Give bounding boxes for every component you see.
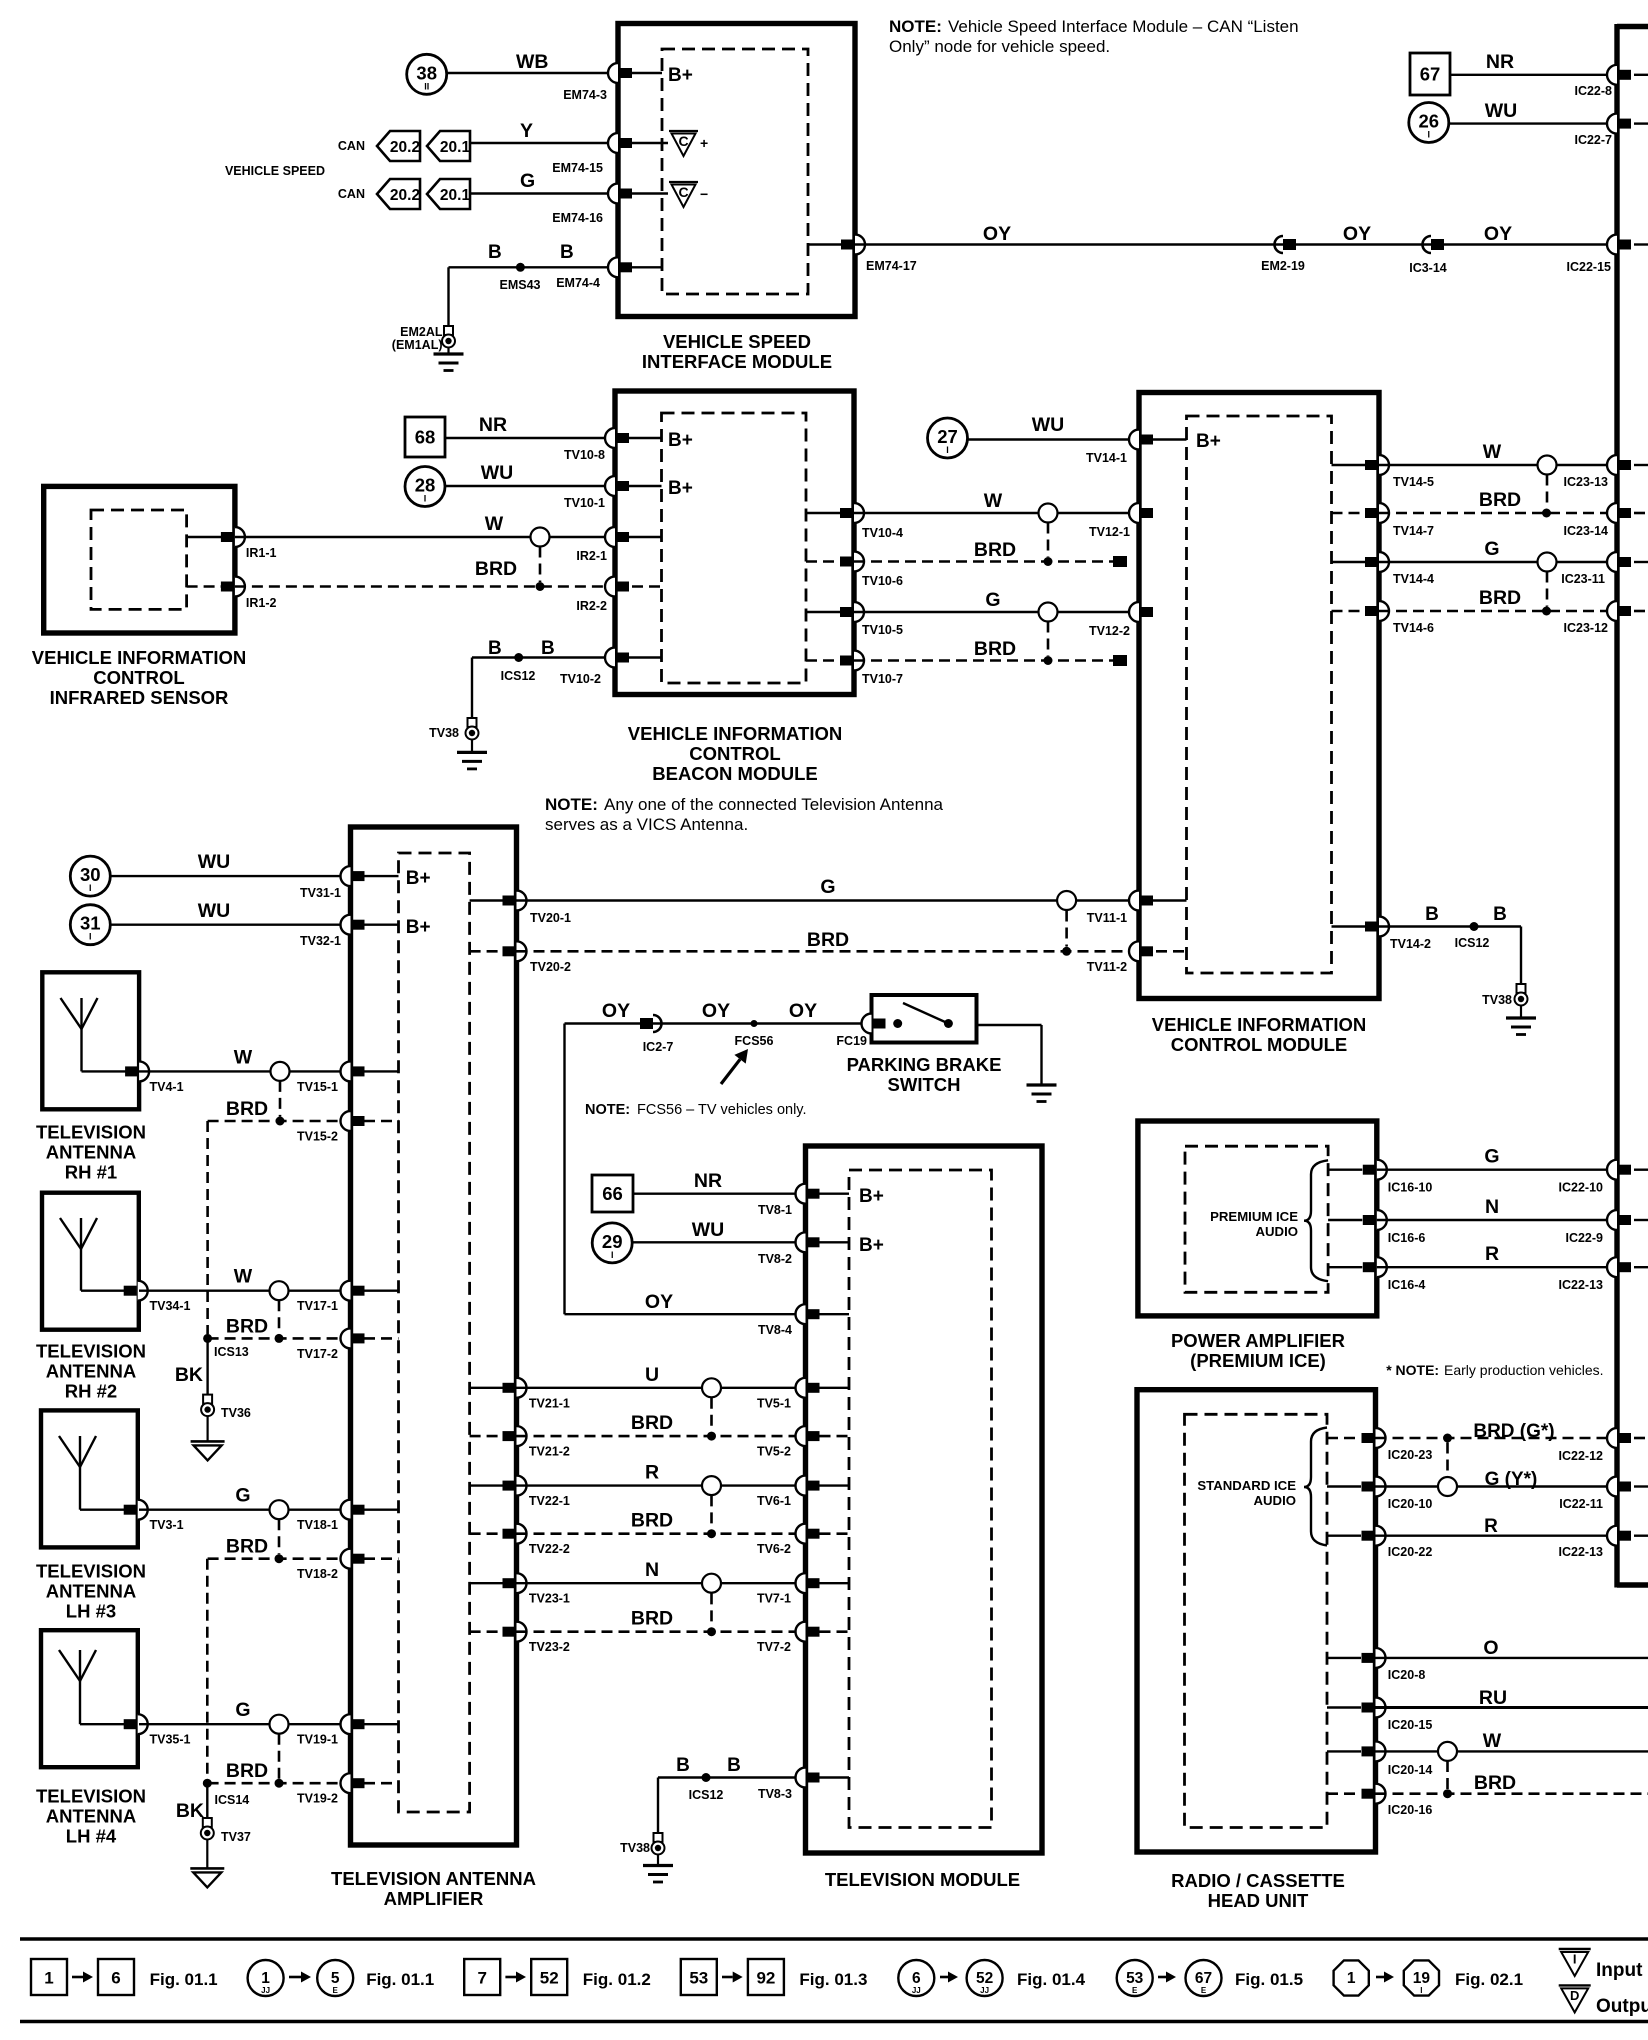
svg-text:IC20-22: IC20-22: [1388, 1545, 1433, 1559]
svg-text:Fig. 01.3: Fig. 01.3: [799, 1970, 867, 1989]
svg-text:TV21-1: TV21-1: [529, 1396, 570, 1410]
svg-text:O: O: [1483, 1637, 1498, 1659]
svg-text:I: I: [424, 494, 427, 504]
svg-text:TV14-4: TV14-4: [1393, 572, 1434, 586]
svg-text:TV10-4: TV10-4: [862, 526, 903, 540]
svg-text:VEHICLE INFORMATION: VEHICLE INFORMATION: [1152, 1014, 1366, 1035]
svg-text:EM74-4: EM74-4: [556, 276, 600, 290]
svg-text:IC16-10: IC16-10: [1388, 1181, 1433, 1195]
svg-text:TV34-1: TV34-1: [150, 1299, 191, 1313]
svg-text:EM74-17: EM74-17: [866, 259, 917, 273]
svg-text:WU: WU: [1032, 414, 1065, 436]
svg-text:IC16-6: IC16-6: [1388, 1231, 1426, 1245]
svg-text:II: II: [424, 81, 429, 91]
svg-text:BRD: BRD: [1479, 489, 1521, 511]
svg-text:Fig. 01.1: Fig. 01.1: [150, 1970, 218, 1989]
svg-text:W: W: [234, 1046, 253, 1068]
svg-text:IC22-10: IC22-10: [1559, 1181, 1604, 1195]
svg-text:1: 1: [1347, 1970, 1356, 1987]
svg-text:B+: B+: [668, 65, 693, 86]
svg-text:30: 30: [80, 864, 101, 885]
svg-text:I: I: [1420, 1986, 1422, 1995]
svg-text:CAN: CAN: [338, 187, 365, 201]
svg-text:* NOTE:: * NOTE:: [1386, 1362, 1439, 1378]
svg-text:TV22-1: TV22-1: [529, 1494, 570, 1508]
svg-text:OY: OY: [1484, 223, 1512, 245]
svg-text:TV32-1: TV32-1: [300, 934, 341, 948]
svg-text:ANTENNA: ANTENNA: [46, 1361, 136, 1382]
svg-text:EM2-19: EM2-19: [1261, 259, 1305, 273]
svg-text:92: 92: [756, 1969, 775, 1988]
svg-text:TELEVISION: TELEVISION: [36, 1786, 146, 1807]
svg-text:NR: NR: [694, 1170, 722, 1192]
svg-text:ICS12: ICS12: [501, 669, 536, 683]
svg-text:D: D: [1570, 1988, 1579, 2003]
svg-text:6: 6: [912, 1970, 921, 1987]
svg-text:1: 1: [44, 1969, 53, 1988]
svg-text:BRD: BRD: [226, 1315, 268, 1337]
svg-text:TV14-2: TV14-2: [1390, 937, 1431, 951]
svg-text:I: I: [611, 1250, 614, 1260]
svg-text:TV10-1: TV10-1: [564, 496, 605, 510]
svg-text:TV21-2: TV21-2: [529, 1445, 570, 1459]
svg-text:G (Y*): G (Y*): [1485, 1469, 1538, 1490]
svg-text:+: +: [700, 135, 708, 151]
svg-text:TV18-1: TV18-1: [297, 1518, 338, 1532]
svg-text:INFRARED SENSOR: INFRARED SENSOR: [50, 687, 229, 708]
svg-text:27: 27: [937, 426, 958, 447]
svg-text:68: 68: [415, 427, 436, 448]
svg-text:TV14-6: TV14-6: [1393, 621, 1434, 635]
svg-text:IC20-23: IC20-23: [1388, 1448, 1433, 1462]
svg-text:TV35-1: TV35-1: [150, 1733, 191, 1747]
svg-text:TV10-7: TV10-7: [862, 672, 903, 686]
svg-text:B+: B+: [859, 1235, 884, 1256]
svg-text:B: B: [560, 242, 574, 263]
svg-text:IC22-8: IC22-8: [1574, 84, 1612, 98]
svg-text:HEAD UNIT: HEAD UNIT: [1208, 1890, 1309, 1911]
svg-text:IC20-16: IC20-16: [1388, 1803, 1433, 1817]
svg-text:I: I: [1428, 130, 1431, 140]
svg-text:TV37: TV37: [221, 1830, 251, 1844]
svg-text:TELEVISION MODULE: TELEVISION MODULE: [825, 1869, 1020, 1890]
svg-text:5: 5: [331, 1970, 340, 1987]
svg-text:29: 29: [602, 1231, 623, 1252]
svg-text:PARKING BRAKE: PARKING BRAKE: [847, 1054, 1002, 1075]
svg-text:TV22-2: TV22-2: [529, 1542, 570, 1556]
svg-text:EMS43: EMS43: [500, 278, 541, 292]
svg-text:TV10-2: TV10-2: [560, 672, 601, 686]
svg-text:TV19-1: TV19-1: [297, 1733, 338, 1747]
svg-text:TV38: TV38: [429, 726, 459, 740]
svg-text:(PREMIUM ICE): (PREMIUM ICE): [1190, 1350, 1326, 1371]
svg-text:BRD: BRD: [631, 1510, 673, 1532]
svg-text:52: 52: [976, 1970, 993, 1987]
svg-text:WU: WU: [481, 462, 514, 484]
svg-text:NOTE:: NOTE:: [545, 795, 598, 814]
svg-text:IR2-1: IR2-1: [576, 549, 607, 563]
svg-text:JJ: JJ: [912, 1986, 921, 1995]
svg-text:BRD: BRD: [974, 539, 1016, 561]
svg-text:B+: B+: [859, 1186, 884, 1207]
svg-text:TELEVISION: TELEVISION: [36, 1341, 146, 1362]
svg-text:BRD: BRD: [631, 1412, 673, 1434]
svg-text:TV31-1: TV31-1: [300, 886, 341, 900]
svg-text:TV6-1: TV6-1: [757, 1494, 791, 1508]
svg-text:TV20-2: TV20-2: [530, 960, 571, 974]
svg-text:BRD: BRD: [226, 1760, 268, 1782]
svg-text:E: E: [333, 1986, 339, 1995]
svg-text:IC20-10: IC20-10: [1388, 1497, 1433, 1511]
svg-text:W: W: [234, 1266, 253, 1288]
svg-text:E: E: [1132, 1986, 1138, 1995]
svg-text:OY: OY: [789, 1000, 817, 1022]
svg-text:TV3-1: TV3-1: [150, 1518, 184, 1532]
svg-text:TELEVISION ANTENNA: TELEVISION ANTENNA: [331, 1868, 536, 1889]
svg-text:TV6-2: TV6-2: [757, 1542, 791, 1556]
svg-text:OY: OY: [1343, 223, 1371, 245]
svg-text:IC22-15: IC22-15: [1567, 260, 1612, 274]
svg-text:TV23-2: TV23-2: [529, 1640, 570, 1654]
svg-text:B: B: [676, 1755, 690, 1776]
svg-text:U: U: [645, 1364, 659, 1386]
svg-text:LH #3: LH #3: [66, 1601, 116, 1622]
svg-text:Early production vehicles.: Early production vehicles.: [1444, 1362, 1604, 1378]
svg-text:Fig. 02.1: Fig. 02.1: [1455, 1970, 1523, 1989]
svg-text:TV14-5: TV14-5: [1393, 475, 1434, 489]
svg-text:Vehicle Speed Interface Module: Vehicle Speed Interface Module – CAN “Li…: [948, 17, 1299, 36]
svg-text:7: 7: [477, 1969, 486, 1988]
svg-text:RH #1: RH #1: [65, 1162, 117, 1183]
svg-text:Input: Input: [1596, 1960, 1643, 1981]
svg-text:FC19: FC19: [836, 1034, 867, 1048]
svg-text:I: I: [946, 445, 949, 455]
svg-text:C: C: [678, 184, 688, 200]
svg-text:C: C: [678, 133, 688, 149]
svg-text:B: B: [488, 242, 502, 263]
svg-text:FCS56 – TV vehicles only.: FCS56 – TV vehicles only.: [637, 1102, 807, 1118]
svg-text:IC22-13: IC22-13: [1559, 1278, 1604, 1292]
svg-text:BEACON MODULE: BEACON MODULE: [652, 763, 817, 784]
svg-text:IC20-15: IC20-15: [1388, 1718, 1433, 1732]
svg-text:JJ: JJ: [261, 1986, 270, 1995]
svg-text:INTERFACE MODULE: INTERFACE MODULE: [642, 351, 832, 372]
svg-text:JJ: JJ: [980, 1986, 989, 1995]
svg-text:EM2AL: EM2AL: [400, 325, 443, 339]
svg-text:NOTE:: NOTE:: [889, 17, 942, 36]
svg-text:G: G: [520, 170, 535, 192]
svg-text:G: G: [235, 1485, 250, 1507]
svg-text:WU: WU: [692, 1219, 725, 1241]
svg-text:B: B: [541, 638, 555, 659]
svg-text:1: 1: [261, 1970, 270, 1987]
svg-text:IR1-2: IR1-2: [246, 596, 277, 610]
svg-text:Any one of the connected Telev: Any one of the connected Television Ante…: [604, 795, 944, 814]
svg-text:TV4-1: TV4-1: [150, 1080, 184, 1094]
svg-text:IC23-14: IC23-14: [1564, 524, 1609, 538]
svg-text:TV8-2: TV8-2: [758, 1252, 792, 1266]
svg-text:CONTROL: CONTROL: [93, 667, 184, 688]
svg-text:BRD: BRD: [475, 558, 517, 580]
svg-text:NR: NR: [1486, 51, 1514, 73]
svg-text:TV5-2: TV5-2: [757, 1445, 791, 1459]
svg-text:TV8-3: TV8-3: [758, 1787, 792, 1801]
svg-text:TV11-2: TV11-2: [1087, 960, 1127, 974]
svg-text:TV17-2: TV17-2: [297, 1347, 338, 1361]
svg-text:TV10-5: TV10-5: [862, 623, 903, 637]
svg-text:TV36: TV36: [221, 1406, 251, 1420]
svg-text:VEHICLE INFORMATION: VEHICLE INFORMATION: [628, 723, 842, 744]
svg-text:20.1: 20.1: [440, 139, 471, 156]
svg-text:TV38: TV38: [1482, 993, 1512, 1007]
svg-text:BRD: BRD: [807, 929, 849, 951]
svg-text:W: W: [1483, 1730, 1502, 1752]
svg-text:IC23-11: IC23-11: [1561, 572, 1605, 586]
svg-text:B: B: [727, 1755, 741, 1776]
svg-text:WU: WU: [1485, 100, 1518, 122]
svg-text:ICS12: ICS12: [1455, 936, 1490, 950]
svg-text:WU: WU: [198, 851, 231, 873]
svg-text:OY: OY: [602, 1000, 630, 1022]
svg-text:Fig. 01.5: Fig. 01.5: [1235, 1970, 1303, 1989]
svg-text:LH #4: LH #4: [66, 1826, 117, 1847]
svg-text:53: 53: [689, 1969, 708, 1988]
svg-text:W: W: [984, 490, 1003, 512]
svg-text:B: B: [488, 638, 502, 659]
svg-text:I: I: [89, 932, 92, 942]
svg-text:FCS56: FCS56: [735, 1034, 774, 1048]
svg-text:B: B: [1425, 904, 1439, 925]
svg-text:TV19-2: TV19-2: [297, 1792, 338, 1806]
svg-text:EM74-15: EM74-15: [552, 161, 603, 175]
svg-text:E: E: [1201, 1986, 1207, 1995]
svg-text:52: 52: [540, 1969, 559, 1988]
svg-text:BRD (G*): BRD (G*): [1473, 1421, 1554, 1442]
svg-text:Only” node for vehicle speed.: Only” node for vehicle speed.: [889, 37, 1110, 56]
svg-text:BK: BK: [175, 1364, 203, 1386]
svg-text:TELEVISION: TELEVISION: [36, 1122, 146, 1143]
svg-text:R: R: [1484, 1516, 1498, 1537]
svg-text:B+: B+: [668, 430, 693, 451]
svg-text:38: 38: [416, 62, 437, 83]
svg-text:W: W: [485, 513, 504, 535]
svg-text:20.2: 20.2: [390, 139, 420, 156]
svg-text:TV10-8: TV10-8: [564, 448, 605, 462]
svg-text:VEHICLE SPEED: VEHICLE SPEED: [225, 164, 325, 178]
svg-text:G: G: [1484, 1146, 1499, 1168]
svg-text:TV8-1: TV8-1: [758, 1203, 792, 1217]
svg-text:Output: Output: [1596, 1996, 1648, 2017]
svg-text:BRD: BRD: [226, 1098, 268, 1120]
svg-text:B+: B+: [1196, 431, 1221, 452]
svg-text:CAN: CAN: [338, 139, 365, 153]
svg-text:EM74-3: EM74-3: [563, 88, 607, 102]
svg-text:20.2: 20.2: [390, 187, 420, 204]
svg-text:G: G: [1484, 538, 1499, 560]
svg-text:20.1: 20.1: [440, 187, 471, 204]
svg-text:TV15-2: TV15-2: [297, 1130, 338, 1144]
svg-text:TV7-2: TV7-2: [757, 1640, 791, 1654]
svg-text:OY: OY: [983, 223, 1011, 245]
svg-text:WB: WB: [516, 51, 549, 73]
svg-text:IR2-2: IR2-2: [576, 599, 607, 613]
svg-text:NR: NR: [479, 414, 507, 436]
svg-text:ANTENNA: ANTENNA: [46, 1581, 136, 1602]
svg-text:(EM1AL): (EM1AL): [392, 338, 443, 352]
svg-text:VEHICLE INFORMATION: VEHICLE INFORMATION: [32, 647, 246, 668]
svg-text:TELEVISION: TELEVISION: [36, 1561, 146, 1582]
svg-text:ICS14: ICS14: [215, 1793, 250, 1807]
svg-text:ICS12: ICS12: [689, 1788, 724, 1802]
svg-text:BK: BK: [176, 1800, 204, 1822]
svg-text:RADIO / CASSETTE: RADIO / CASSETTE: [1171, 1870, 1345, 1891]
svg-text:ANTENNA: ANTENNA: [46, 1142, 136, 1163]
svg-text:TV8-4: TV8-4: [758, 1323, 792, 1337]
svg-text:−: −: [700, 186, 708, 202]
svg-text:CONTROL: CONTROL: [689, 743, 780, 764]
svg-text:RH #2: RH #2: [65, 1381, 117, 1402]
svg-text:IC22-11: IC22-11: [1559, 1497, 1603, 1511]
svg-text:IC2-7: IC2-7: [643, 1040, 674, 1054]
svg-text:6: 6: [111, 1969, 120, 1988]
svg-text:BRD: BRD: [1474, 1772, 1516, 1794]
svg-text:TV5-1: TV5-1: [757, 1396, 791, 1410]
svg-text:AUDIO: AUDIO: [1254, 1493, 1297, 1508]
svg-text:R: R: [645, 1462, 659, 1484]
svg-text:ICS13: ICS13: [214, 1345, 249, 1359]
svg-text:Fig. 01.2: Fig. 01.2: [583, 1970, 651, 1989]
svg-text:CONTROL MODULE: CONTROL MODULE: [1171, 1034, 1347, 1055]
svg-text:BRD: BRD: [1479, 587, 1521, 609]
svg-text:STANDARD ICE: STANDARD ICE: [1197, 1478, 1296, 1493]
svg-text:B+: B+: [668, 478, 693, 499]
svg-text:TV11-1: TV11-1: [1087, 911, 1127, 925]
svg-text:IC20-8: IC20-8: [1388, 1668, 1426, 1682]
svg-text:IC22-13: IC22-13: [1559, 1545, 1604, 1559]
svg-text:W: W: [1483, 441, 1502, 463]
svg-text:AUDIO: AUDIO: [1256, 1224, 1299, 1239]
svg-text:TV14-7: TV14-7: [1393, 524, 1434, 538]
svg-text:RU: RU: [1479, 1687, 1507, 1709]
svg-text:serves as a VICS Antenna.: serves as a VICS Antenna.: [545, 815, 748, 834]
svg-text:IC22-9: IC22-9: [1565, 1231, 1603, 1245]
svg-text:TV20-1: TV20-1: [530, 911, 571, 925]
svg-text:AMPLIFIER: AMPLIFIER: [384, 1888, 484, 1909]
svg-text:TV14-1: TV14-1: [1086, 451, 1127, 465]
svg-text:G: G: [985, 589, 1000, 611]
svg-text:I: I: [89, 883, 92, 893]
svg-text:EM74-16: EM74-16: [552, 211, 603, 225]
svg-text:BRD: BRD: [631, 1608, 673, 1630]
svg-text:B+: B+: [406, 917, 431, 938]
svg-text:I: I: [1573, 1952, 1577, 1967]
svg-text:BRD: BRD: [974, 638, 1016, 660]
svg-text:26: 26: [1419, 111, 1440, 132]
svg-text:BRD: BRD: [226, 1536, 268, 1558]
svg-text:N: N: [645, 1559, 659, 1581]
svg-text:67: 67: [1420, 64, 1441, 85]
svg-text:PREMIUM ICE: PREMIUM ICE: [1210, 1209, 1298, 1224]
svg-text:POWER AMPLIFIER: POWER AMPLIFIER: [1171, 1330, 1345, 1351]
svg-text:TV7-1: TV7-1: [757, 1592, 791, 1606]
svg-text:TV17-1: TV17-1: [297, 1299, 338, 1313]
svg-text:WU: WU: [198, 900, 231, 922]
svg-text:Fig. 01.1: Fig. 01.1: [366, 1970, 434, 1989]
svg-text:Y: Y: [520, 120, 533, 142]
svg-text:NOTE:: NOTE:: [585, 1102, 630, 1118]
svg-text:B+: B+: [406, 868, 431, 889]
svg-text:IC3-14: IC3-14: [1409, 261, 1447, 275]
svg-text:G: G: [820, 876, 835, 898]
svg-text:TV38: TV38: [620, 1841, 650, 1855]
svg-text:IC23-13: IC23-13: [1564, 475, 1609, 489]
svg-text:TV12-2: TV12-2: [1089, 624, 1130, 638]
svg-text:TV15-1: TV15-1: [297, 1080, 338, 1094]
svg-text:28: 28: [415, 475, 436, 496]
svg-text:IC22-12: IC22-12: [1559, 1449, 1604, 1463]
svg-text:R: R: [1485, 1243, 1499, 1265]
svg-text:IC20-14: IC20-14: [1388, 1763, 1433, 1777]
svg-text:OY: OY: [645, 1291, 673, 1313]
svg-text:19: 19: [1413, 1970, 1431, 1987]
svg-text:TV12-1: TV12-1: [1089, 525, 1130, 539]
svg-text:66: 66: [602, 1183, 623, 1204]
svg-text:ANTENNA: ANTENNA: [46, 1806, 136, 1827]
svg-text:Fig. 01.4: Fig. 01.4: [1017, 1970, 1086, 1989]
svg-text:TV23-1: TV23-1: [529, 1592, 570, 1606]
svg-text:31: 31: [80, 913, 101, 934]
svg-text:67: 67: [1195, 1970, 1212, 1987]
svg-text:TV18-2: TV18-2: [297, 1567, 338, 1581]
svg-text:N: N: [1485, 1196, 1499, 1218]
svg-text:B: B: [1493, 904, 1507, 925]
svg-text:IC16-4: IC16-4: [1388, 1278, 1426, 1292]
svg-text:IC23-12: IC23-12: [1564, 621, 1609, 635]
svg-text:VEHICLE SPEED: VEHICLE SPEED: [663, 331, 811, 352]
svg-text:53: 53: [1126, 1970, 1144, 1987]
svg-text:G: G: [235, 1699, 250, 1721]
svg-text:TV10-6: TV10-6: [862, 574, 903, 588]
svg-text:SWITCH: SWITCH: [888, 1074, 961, 1095]
svg-text:IC22-7: IC22-7: [1574, 133, 1612, 147]
svg-text:OY: OY: [702, 1000, 730, 1022]
svg-text:IR1-1: IR1-1: [246, 546, 277, 560]
